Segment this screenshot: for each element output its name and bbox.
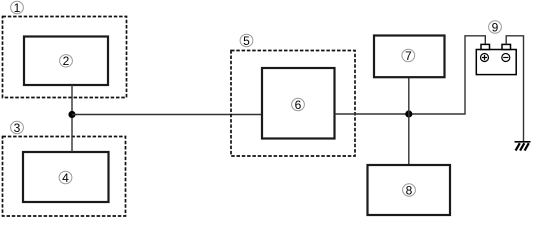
- wire: battery negative to ground: [506, 36, 523, 142]
- label 6: [292, 98, 305, 112]
- label 9: [489, 20, 502, 34]
- label 8: [403, 183, 416, 197]
- label 5: [240, 34, 253, 48]
- label 2: [60, 54, 73, 68]
- battery positive terminal: [481, 44, 490, 49]
- battery plus mark: [481, 54, 489, 62]
- svg-text:2: 2: [63, 54, 70, 68]
- dashed enclosure 1: [3, 17, 127, 98]
- label 7: [402, 49, 415, 63]
- wire: left junction to box6: [72, 114, 262, 116]
- wire: junction down to box8: [408, 114, 410, 165]
- svg-text:8: 8: [406, 183, 413, 197]
- ground: [515, 142, 531, 151]
- svg-text:1: 1: [14, 1, 21, 15]
- label 4: [59, 171, 72, 185]
- svg-text:7: 7: [405, 49, 412, 63]
- component box 4: [23, 152, 109, 202]
- component box 7: [374, 36, 445, 78]
- label 3: [11, 121, 24, 135]
- component box 2: [24, 37, 108, 86]
- wire: junction up to box7: [408, 77, 410, 114]
- dashed enclosure 3: [3, 137, 126, 217]
- label 1: [11, 1, 24, 15]
- component box 6: [262, 68, 335, 139]
- component box 8: [368, 165, 451, 215]
- battery negative terminal: [502, 44, 511, 49]
- wire: box6 right to battery positive loop: [335, 36, 486, 114]
- dashed enclosure 5: [231, 51, 355, 157]
- battery minus mark: [502, 54, 510, 62]
- battery 9 body: [476, 50, 516, 75]
- wire: box2 bottom to box4 top through junction: [71, 85, 73, 152]
- svg-text:4: 4: [62, 171, 69, 185]
- junction node left: [68, 111, 75, 118]
- svg-text:3: 3: [14, 121, 21, 135]
- junction node right: [405, 110, 412, 117]
- svg-text:9: 9: [492, 20, 499, 34]
- svg-text:5: 5: [243, 34, 250, 48]
- svg-text:6: 6: [295, 98, 302, 112]
